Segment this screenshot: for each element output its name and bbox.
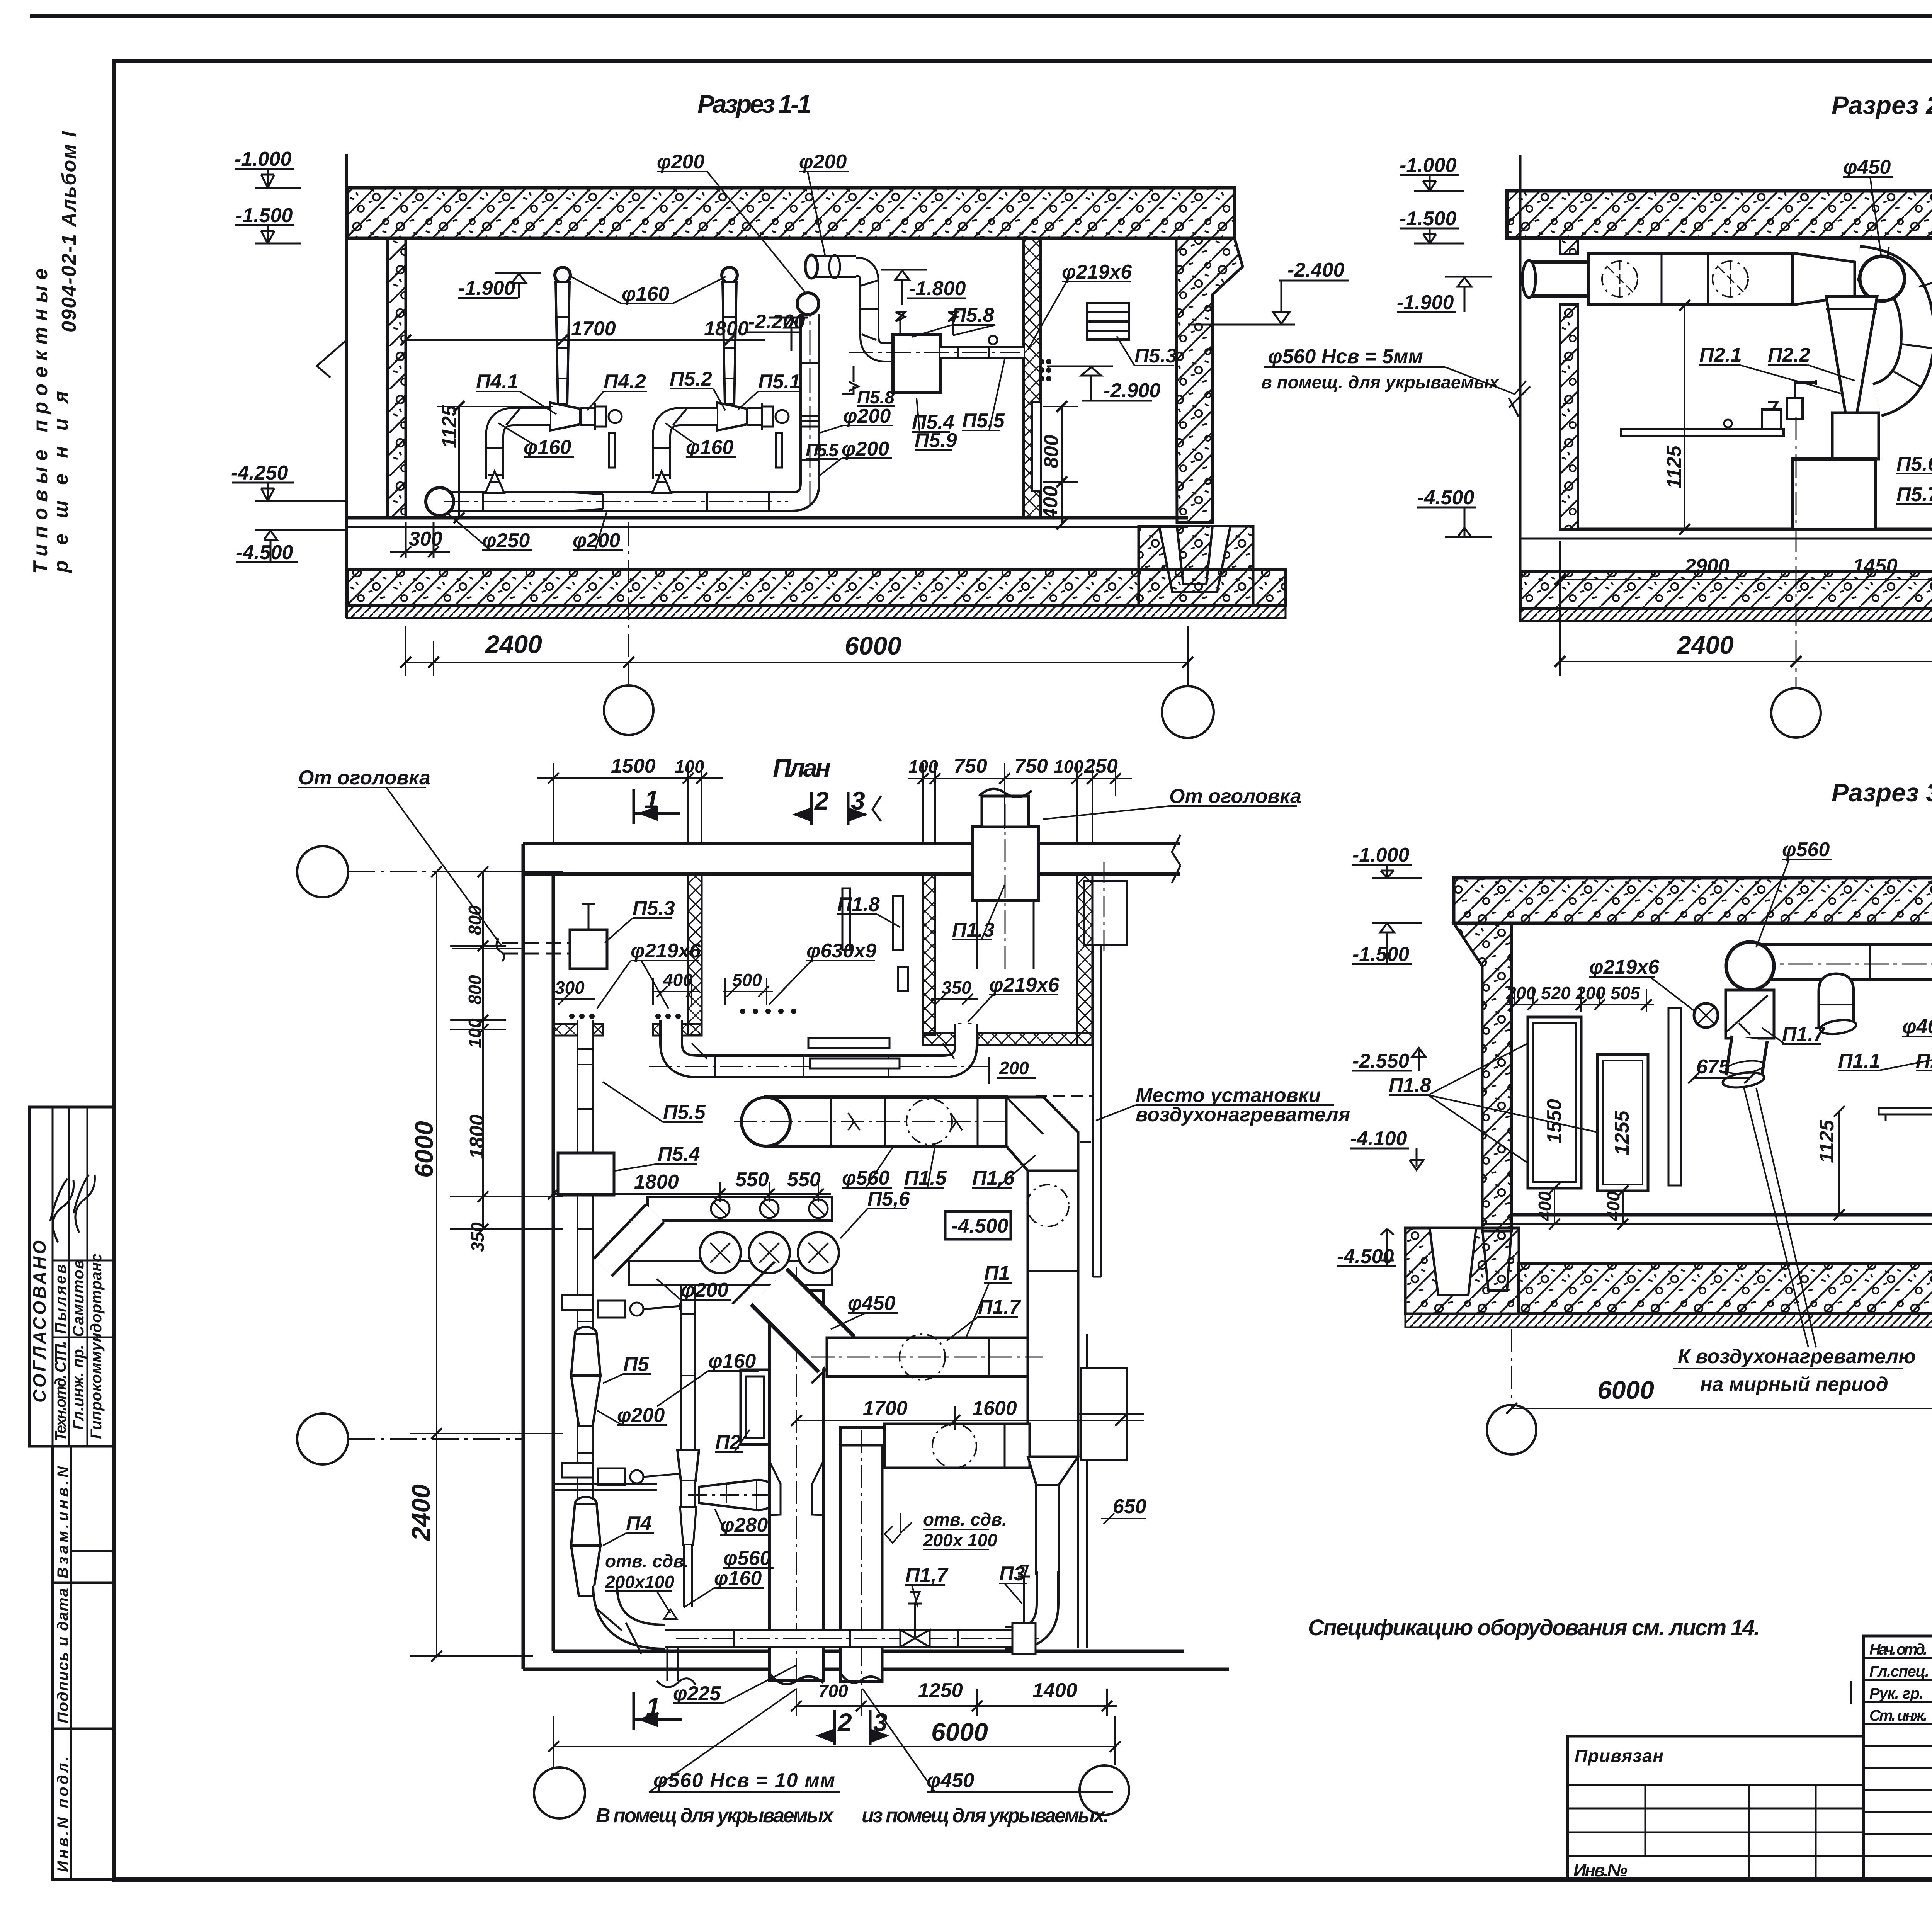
svg-text:2400: 2400 (1676, 631, 1734, 659)
svg-text:Типовые проектные: Типовые проектные (29, 269, 52, 574)
svg-text:Гл.спец.: Гл.спец. (1869, 1663, 1929, 1680)
top dim 100 750 750 100 250 (908, 763, 1132, 842)
phi560 circle over duct (1726, 942, 1774, 990)
phi560 elbow 45 and down duct (1006, 1097, 1078, 1457)
svg-text:1800: 1800 (704, 318, 749, 340)
svg-text:φ450: φ450 (927, 1769, 974, 1792)
svg-text:φ280: φ280 (720, 1514, 768, 1536)
svg-text:Нач. отд.: Нач. отд. (1869, 1641, 1927, 1658)
svg-text:2900: 2900 (1684, 555, 1730, 577)
P2 unit (741, 1370, 796, 1444)
svg-text:300: 300 (555, 978, 585, 998)
svg-text:1450: 1450 (1853, 555, 1898, 577)
svg-text:Техн.отд. СТП.: Техн.отд. СТП. (52, 1341, 69, 1441)
svg-text:675: 675 (1696, 1056, 1730, 1078)
P5 filter bottle (571, 1327, 600, 1426)
ceiling slab 2-2 (1507, 191, 1932, 238)
svg-text:φ200: φ200 (657, 151, 704, 173)
dim 400 under box2 (1617, 1185, 1628, 1230)
svg-text:П4.1: П4.1 (476, 371, 519, 393)
middle partition wall (1024, 238, 1041, 518)
phi630 collector duct (649, 1020, 989, 1078)
stack 2 elbow to floor duct (652, 409, 717, 493)
pedestal (1793, 459, 1876, 529)
svg-text:-4.250: -4.250 (231, 462, 288, 484)
svg-text:400: 400 (1603, 1191, 1623, 1221)
intake stack 1 (550, 267, 622, 468)
svg-text:П5.5: П5.5 (962, 410, 1005, 432)
svg-text:2: 2 (837, 1708, 852, 1736)
svg-text:От оголовка: От оголовка (298, 767, 430, 789)
dim 1700 1600 (791, 1406, 1144, 1430)
phi160 vertical line mid (677, 1286, 777, 1607)
svg-text:φ400: φ400 (1902, 1015, 1932, 1038)
diagonal duct to V1 (732, 1262, 856, 1383)
inlet pipe from ogolovok (502, 943, 570, 954)
intake stack 2 (717, 267, 789, 468)
svg-text:1700: 1700 (863, 1397, 908, 1420)
floor lines 3-3 (1512, 1213, 1932, 1217)
svg-text:0904-02-1 Альбом I: 0904-02-1 Альбом I (58, 131, 80, 332)
P1.7 inline valve (900, 1592, 930, 1647)
svg-text:-1.000: -1.000 (1400, 154, 1457, 177)
column circles 3-3 (1487, 1405, 1536, 1454)
svg-text:200: 200 (999, 1058, 1029, 1078)
svg-text:φ200: φ200 (617, 1404, 665, 1427)
svg-text:Спецификацию оборудования см.: Спецификацию оборудования см. лист 14. (1308, 1615, 1760, 1640)
svg-text:-2.900: -2.900 (1104, 379, 1161, 402)
filter box (1832, 413, 1879, 459)
svg-text:Ст. инж.: Ст. инж. (1869, 1707, 1927, 1724)
riser top cap (797, 293, 819, 315)
left wall foot 3-3 (1482, 1228, 1512, 1291)
svg-text:200: 200 (1575, 983, 1605, 1003)
svg-text:-4.500: -4.500 (236, 541, 293, 564)
svg-text:Разрез 1-1: Разрез 1-1 (697, 90, 811, 118)
dim chain 200 520 200 505 (1507, 989, 1654, 1012)
top wall inner line (523, 872, 1180, 876)
horizontal wall segment a (553, 1024, 603, 1036)
svg-text:750: 750 (1014, 755, 1048, 777)
left wall 3-3 (1454, 923, 1512, 1231)
svg-text:Гл.инж. пр.: Гл.инж. пр. (70, 1345, 87, 1430)
svg-text:Гипрокоммундортранс: Гипрокоммундортранс (88, 1253, 105, 1439)
svg-text:СОГЛАСОВАНО: СОГЛАСОВАНО (29, 1240, 49, 1403)
svg-text:Разрез 3-3: Разрез 3-3 (1832, 778, 1932, 807)
heater dashed position (1036, 1096, 1094, 1142)
bottom left corner duct (595, 1586, 665, 1654)
title block texts (1573, 1629, 1932, 1932)
svg-text:φ560: φ560 (842, 1167, 889, 1189)
top cylinder phi200 (805, 255, 893, 352)
svg-text:П1.8: П1.8 (1389, 1074, 1431, 1097)
right upper bump rect (1084, 881, 1127, 945)
svg-text:П5.8: П5.8 (857, 387, 895, 407)
P1.3 duct through top wall (972, 827, 1038, 900)
ceiling slab 3-3 (1454, 878, 1932, 923)
svg-text:П5.1: П5.1 (758, 371, 801, 393)
sheet outer border top line (30, 14, 1932, 18)
dim 1125 vertical (437, 401, 553, 523)
svg-text:на мирный период: на мирный период (1700, 1373, 1888, 1396)
left wall 2-2 upper (1560, 238, 1578, 254)
svg-text:В помещ для укрываемых: В помещ для укрываемых (596, 1804, 834, 1827)
svg-text:-1.900: -1.900 (458, 277, 515, 299)
signature squiggles (1851, 1639, 1932, 1721)
svg-text:φ219x6: φ219x6 (1062, 261, 1132, 283)
svg-text:550: 550 (787, 1168, 821, 1191)
svg-text:2400: 2400 (406, 1484, 435, 1542)
column circles (604, 685, 653, 735)
svg-text:План: План (773, 753, 831, 782)
dim 1800 550 550 (548, 1182, 831, 1202)
svg-text:1700: 1700 (571, 318, 616, 340)
lever 3-3 (1879, 1108, 1932, 1121)
svg-text:350: 350 (468, 1222, 488, 1252)
lever arm (1621, 380, 1816, 436)
svg-text:φ630x9: φ630x9 (806, 940, 876, 962)
levels left 3-3 (1337, 865, 1426, 1266)
svg-text:1: 1 (645, 785, 659, 814)
svg-text:П5.6: П5.6 (1896, 453, 1932, 475)
svg-text:505: 505 (1611, 983, 1641, 1003)
svg-text:400: 400 (1039, 486, 1062, 520)
svg-text:φ200: φ200 (843, 405, 891, 427)
left wall 2-2 lower (1560, 304, 1578, 529)
svg-text:φ219x6: φ219x6 (1589, 956, 1660, 978)
svg-text:-2.400: -2.400 (1287, 259, 1345, 281)
bottom slab 2-2 (1520, 572, 1932, 609)
podpis i data section (53, 1583, 114, 1729)
heater plates (808, 1038, 889, 1048)
P5.4 box on line (558, 1153, 614, 1195)
svg-text:φ219x6: φ219x6 (989, 974, 1060, 996)
svg-text:-2.200: -2.200 (748, 311, 805, 333)
svg-text:φ160: φ160 (524, 436, 571, 459)
svg-text:П3: П3 (999, 1563, 1025, 1585)
main intake duct (1588, 253, 1793, 305)
phi560 fan duct (734, 1097, 1012, 1146)
narrow strip right of boxes (1668, 1008, 1681, 1185)
svg-text:1500: 1500 (611, 755, 656, 777)
top dim 1500 100 (537, 763, 723, 842)
svg-text:φ450: φ450 (1843, 156, 1891, 179)
P3 inline unit (1012, 1566, 1036, 1654)
left axis circles (297, 846, 348, 897)
svg-text:-1.000: -1.000 (235, 148, 292, 170)
left wall lines (522, 844, 525, 1669)
left outer edge line 2-2 (1519, 155, 1522, 621)
equipment labels 2-2 (1699, 281, 1932, 506)
manifold big circles (700, 1232, 839, 1273)
svg-text:П5.3: П5.3 (633, 897, 675, 920)
svg-text:φ200: φ200 (573, 529, 620, 552)
P1.8 wall filters (893, 896, 903, 950)
-4.500 box (945, 1211, 1011, 1239)
svg-text:6000: 6000 (1597, 1376, 1654, 1404)
svg-text:-4.500: -4.500 (951, 1215, 1009, 1237)
svg-text:2: 2 (814, 786, 829, 815)
phi280 expanding duct right (699, 1480, 757, 1510)
svg-text:200: 200 (1506, 983, 1536, 1003)
valves on box (842, 312, 957, 394)
svg-text:φ560: φ560 (723, 1547, 771, 1570)
svg-text:П4.2: П4.2 (604, 371, 646, 393)
svg-text:-4.100: -4.100 (1350, 1128, 1407, 1150)
svg-text:Инв.№: Инв.№ (1573, 1860, 1628, 1880)
svg-text:П5.5: П5.5 (663, 1101, 706, 1124)
svg-text:П5: П5 (623, 1353, 649, 1376)
transition taper (1793, 253, 1855, 305)
section markers 2 3 bottom (819, 1710, 887, 1745)
svg-text:1600: 1600 (972, 1397, 1017, 1420)
partition wall P5.3|P1.8 (688, 874, 702, 1035)
svg-text:1800: 1800 (466, 1114, 488, 1159)
svg-text:400: 400 (1535, 1191, 1555, 1221)
P5 side assembly (562, 1295, 680, 1318)
left dim chain outer 6000 2400 (410, 866, 563, 1662)
svg-text:6000: 6000 (845, 631, 901, 660)
svg-text:1: 1 (646, 1692, 660, 1721)
bottom fine strip 2-2 (1520, 609, 1932, 621)
P1.7 box with X (1726, 990, 1774, 1038)
svg-text:Подпись и дата: Подпись и дата (54, 1588, 71, 1723)
dim 1125 2-2 (1662, 300, 1708, 535)
svg-text:П1.1: П1.1 (1838, 1050, 1881, 1072)
phi225 pipe down through bottom wall (657, 1648, 696, 1687)
bottom elbow V4 (1005, 1571, 1048, 1638)
horizontal fan duct H (811, 1334, 1043, 1380)
svg-text:1125: 1125 (1663, 445, 1685, 489)
svg-text:2400: 2400 (485, 630, 542, 658)
top labels 2-2 (1843, 156, 1932, 179)
svg-text:отв. сдв.: отв. сдв. (923, 1509, 1007, 1529)
svg-text:550: 550 (735, 1168, 769, 1191)
floor lines (347, 516, 1188, 520)
svg-text:П1.7: П1.7 (978, 1296, 1021, 1318)
signature table (1864, 1636, 1932, 1879)
scroll elbow duct (1859, 247, 1932, 400)
bottom slab (347, 569, 1286, 606)
box P5.4 (893, 335, 940, 393)
labels 3-3 (1389, 956, 1932, 1182)
svg-text:П4: П4 (626, 1512, 651, 1535)
svg-text:От оголовка: От оголовка (1169, 785, 1301, 808)
filter box P1.8 no.1 (1528, 1017, 1581, 1188)
svg-text:6000: 6000 (931, 1718, 988, 1746)
svg-text:100: 100 (465, 1018, 485, 1048)
svg-text:250: 250 (1084, 755, 1118, 777)
loop top duct H2 (840, 1424, 1030, 1468)
P4 side assembly (553, 1463, 680, 1490)
P5.5 tall rect (1032, 402, 1041, 491)
right lower bump rect (1081, 1368, 1127, 1460)
svg-text:800: 800 (465, 905, 485, 935)
svg-text:П1: П1 (984, 1262, 1010, 1284)
cross fitting (680, 1481, 696, 1507)
svg-text:φ560: φ560 (1782, 838, 1830, 861)
right wall wedge (1176, 238, 1243, 522)
bottom fine hatch strip (347, 606, 1286, 618)
leader digit 1 (1850, 1681, 1852, 1704)
bottom dim chain 2-2 (1554, 417, 1932, 688)
right wall foundation block (1139, 526, 1253, 606)
section marker 1 top (634, 789, 680, 824)
top horizontal duct 3-3 (1762, 945, 1932, 980)
svg-text:Разрез 2-2: Разрез 2-2 (1832, 91, 1932, 119)
level marks left (232, 169, 348, 562)
bottom wall lines (553, 1650, 1184, 1653)
inv n podl section (53, 1729, 114, 1879)
svg-text:100: 100 (675, 757, 704, 777)
svg-text:П5.4: П5.4 (658, 1143, 700, 1165)
ellipse stub on duct (1819, 974, 1857, 1036)
pipe from box to wall (849, 336, 1024, 359)
svg-text:1125: 1125 (438, 405, 461, 448)
louver P5.3 (1087, 303, 1129, 340)
svg-text:φ160: φ160 (686, 436, 733, 459)
manifold small taps (711, 1199, 828, 1218)
privyazan block (1568, 1736, 1864, 1879)
partition wall right of P1.3 (1077, 874, 1092, 1045)
svg-text:1400: 1400 (1032, 1679, 1077, 1702)
P1.7 drop pipe (1722, 1038, 1765, 1090)
svg-text:φ200: φ200 (799, 151, 847, 173)
left wall (388, 238, 406, 518)
dim 2900 1450 (1554, 556, 1932, 595)
svg-text:П5.2: П5.2 (670, 368, 712, 390)
svg-text:φ200: φ200 (681, 1279, 728, 1301)
svg-text:П5.8: П5.8 (952, 304, 994, 327)
svg-text:φ225: φ225 (673, 1682, 721, 1705)
left outer edge line (345, 154, 348, 618)
right wall pit gap (1159, 526, 1230, 592)
fan circle dashed 1 (1602, 261, 1638, 297)
svg-text:800: 800 (465, 975, 485, 1005)
ceiling slab (347, 188, 1235, 238)
dim 6000 bottom plan (548, 1716, 1121, 1767)
svg-text:800: 800 (1040, 435, 1063, 468)
svg-text:100: 100 (1054, 757, 1083, 777)
P4 filter bottle (571, 1497, 600, 1596)
dim 1125 left (1834, 1106, 1845, 1220)
partition wall P1.8|P1.3 (923, 874, 935, 1035)
svg-text:φ560 Нсв = 10 мм: φ560 Нсв = 10 мм (653, 1769, 835, 1792)
svg-text:П2.2: П2.2 (1768, 344, 1810, 366)
stack 1 elbow to floor duct (485, 409, 550, 493)
column circles 2-2 (1771, 688, 1821, 738)
section marker 1 bottom (634, 1692, 682, 1730)
bottom dim chain (400, 522, 1193, 686)
svg-text:750: 750 (954, 755, 987, 777)
top-left rotated album texts (29, 131, 80, 574)
svg-text:6000: 6000 (410, 1121, 438, 1178)
top wall outer line (523, 842, 1180, 845)
svg-text:П1.5: П1.5 (904, 1167, 947, 1189)
levels left 2-2 (1397, 175, 1492, 537)
left foundation block 3-3 (1405, 1228, 1519, 1314)
svg-text:1125: 1125 (1816, 1119, 1838, 1163)
fan scroll circle (1860, 256, 1905, 301)
P5.6 manifold lower duct (629, 1261, 832, 1285)
bottom run pipe (657, 1629, 1039, 1648)
left dim chain inner (448, 866, 563, 1235)
big vertical duct V1 phi560 (769, 1267, 823, 1685)
svg-text:-2.550: -2.550 (1352, 1050, 1410, 1072)
svg-text:200х100: 200х100 (605, 1572, 674, 1592)
bottom dims 700 1250 1400 (791, 1689, 1117, 1716)
svg-text:из помещ для укрываемых.: из помещ для укрываемых. (862, 1804, 1109, 1827)
labels P4.1 P4.2 P5.2 P5.1 (476, 368, 801, 393)
svg-text:1800: 1800 (634, 1171, 679, 1193)
right wall foot (1177, 526, 1213, 584)
svg-text:-1.900: -1.900 (1397, 291, 1454, 314)
phi219 small circle (1694, 1003, 1718, 1027)
svg-text:650: 650 (1113, 1495, 1146, 1518)
svg-text:П5,6: П5,6 (867, 1188, 910, 1210)
svg-text:1250: 1250 (918, 1679, 963, 1702)
svg-text:П5.7: П5.7 (1896, 483, 1932, 506)
svg-text:-1.500: -1.500 (236, 204, 293, 227)
svg-text:φ160: φ160 (622, 283, 669, 305)
svg-text:Рук. гр.: Рук. гр. (1869, 1685, 1923, 1702)
narrow pipe V4 (1036, 1485, 1059, 1574)
svg-text:отв. сдв.: отв. сдв. (605, 1551, 689, 1571)
V3 duct (840, 1430, 882, 1685)
top labels 3-3 (1782, 836, 1932, 861)
svg-text:воздухонагревателя: воздухонагревателя (1136, 1104, 1350, 1126)
soglasovano section (29, 1107, 114, 1446)
horizontal wall segment c (923, 1033, 958, 1045)
dim 400 under box1 (1549, 1183, 1560, 1230)
dim 800 vertical (1043, 401, 1078, 529)
svg-text:К воздухонагревателю: К воздухонагревателю (1678, 1345, 1916, 1368)
top wall break mark (1172, 835, 1180, 883)
floor lines 2-2 (1578, 528, 1932, 531)
svg-text:100: 100 (908, 757, 938, 777)
svg-text:П5.5: П5.5 (806, 440, 839, 460)
svg-text:П1.8: П1.8 (837, 893, 880, 916)
flange dots on walls (569, 1009, 973, 1028)
svg-text:3: 3 (851, 786, 865, 815)
svg-text:-4.500: -4.500 (1417, 486, 1475, 509)
svg-text:-1.800: -1.800 (909, 277, 966, 300)
svg-text:П2.1: П2.1 (1699, 344, 1742, 366)
svg-text:-1.000: -1.000 (1352, 844, 1410, 866)
horizontal wall segment d (978, 1033, 1092, 1045)
floor duct with right riser (426, 293, 820, 515)
svg-text:520: 520 (1541, 983, 1571, 1003)
left vertical duct P5.4 line (577, 1020, 594, 1580)
duct joints (483, 363, 820, 512)
left pit gap 3-3 (1430, 1228, 1476, 1295)
stamp signatures rotated (50, 1179, 74, 1242)
cyclone funnel P2 (1826, 296, 1877, 413)
svg-text:φ160: φ160 (714, 1567, 762, 1590)
riser centerline (444, 309, 810, 506)
bottom column circles plan (534, 1767, 585, 1818)
svg-text:φ560 Нсв = 5мм: φ560 Нсв = 5мм (1268, 345, 1423, 368)
P5.6 manifold upper duct (648, 1197, 832, 1221)
wall flange dots (1039, 359, 1051, 381)
P5.3 box (570, 930, 607, 969)
svg-text:φ160: φ160 (708, 1350, 756, 1372)
svg-text:Привязан: Привязан (1575, 1746, 1663, 1766)
svg-text:700: 700 (818, 1681, 848, 1701)
filter box P1.8 no.2 (1597, 1054, 1648, 1191)
bottom slab 3-3 (1519, 1263, 1932, 1314)
svg-text:П2: П2 (715, 1431, 741, 1454)
